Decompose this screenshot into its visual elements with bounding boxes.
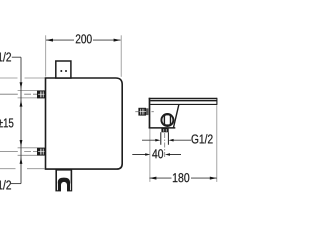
- extension line bottom-left horizontal: [0, 168, 45, 170]
- side view shelf top line A: [149, 98, 217, 100]
- dimension 150 pm 15 vertical: [20, 100, 23, 107]
- body front view: [46, 78, 123, 169]
- thread label G1/2 bottom inlet (clipped): [0, 180, 11, 189]
- centerline inlet 2: [0, 151, 49, 153]
- side view shelf line C: [150, 103, 217, 105]
- box dot left: [60, 70, 62, 72]
- value label 200: [76, 34, 92, 43]
- mounting box on top: [56, 61, 71, 78]
- extension line top-left horizontal: [0, 77, 45, 79]
- knob inner profile: [164, 115, 170, 125]
- centerline inlet 1: [0, 93, 49, 95]
- dimension 40: [132, 154, 181, 156]
- leader G1/2 outlet: [142, 139, 191, 141]
- inlet pipe 2 outline: [18, 148, 37, 156]
- outlet nut side view: [161, 128, 168, 132]
- side view body bottom: [149, 127, 176, 129]
- side inlet fitting: [138, 108, 148, 116]
- thread label G1/2 top inlet (clipped): [0, 52, 11, 61]
- box dot right: [65, 70, 67, 72]
- dimension 200: [46, 39, 121, 41]
- knob circle side view: [161, 114, 173, 126]
- extension line 180 right: [216, 105, 218, 182]
- value label 40: [152, 149, 163, 158]
- outlet handle bottom front: [56, 170, 71, 192]
- inlet fitting 1: [37, 90, 45, 98]
- side view diagonal: [173, 104, 179, 128]
- side view shelf right cap: [216, 98, 218, 105]
- value label 180: [173, 173, 189, 182]
- outlet pipe side view: [161, 132, 169, 145]
- tolerance label ±15 (clipped): [0, 118, 13, 127]
- dimension 180: [149, 177, 216, 179]
- inlet pipe 1 outline: [18, 90, 37, 98]
- centerline outlet pipe vertical: [164, 133, 166, 158]
- extension line 180 left: [149, 129, 151, 182]
- leader G1/2 bottom inlet: [11, 183, 21, 185]
- extension line 200 left: [45, 35, 47, 76]
- thread label G1/2 outlet: [192, 134, 213, 143]
- leader G1/2 top inlet: [12, 57, 21, 183]
- extension line 200 right: [120, 35, 122, 77]
- side view body left edge: [149, 98, 151, 129]
- inlet fitting 2: [37, 148, 45, 156]
- side view shelf line B: [150, 100, 217, 102]
- centerline side inlet: [135, 111, 154, 113]
